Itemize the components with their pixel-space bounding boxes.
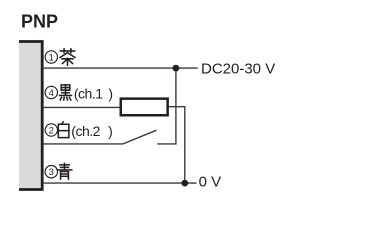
- svg-text:(ch.2): (ch.2): [71, 123, 112, 139]
- svg-text:1: 1: [49, 52, 54, 63]
- svg-text:0 V: 0 V: [199, 174, 222, 191]
- svg-text:DC20-30 V: DC20-30 V: [201, 60, 275, 77]
- svg-text:2: 2: [49, 125, 54, 136]
- svg-text:3: 3: [49, 167, 54, 178]
- svg-text:4: 4: [49, 88, 54, 99]
- svg-text:PNP: PNP: [21, 12, 58, 32]
- svg-text:(ch.1): (ch.1): [74, 86, 113, 102]
